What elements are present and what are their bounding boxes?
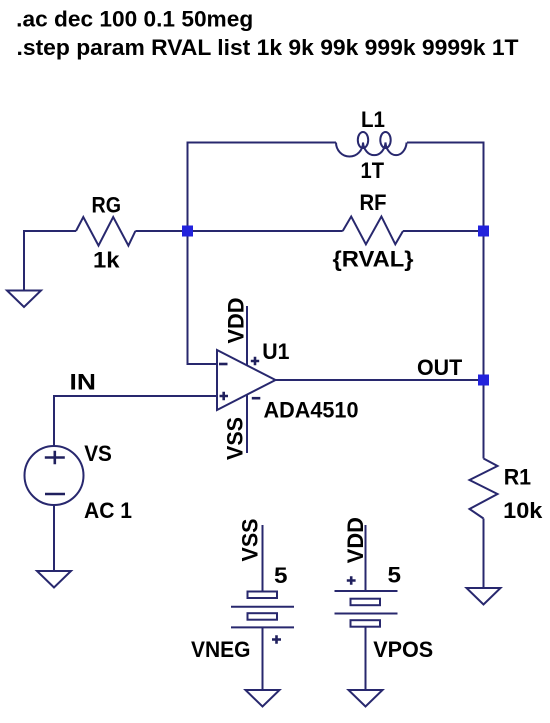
svg-text:VSS: VSS (223, 417, 248, 460)
ground (VS) (37, 571, 71, 588)
wire VS to ground (53, 505, 55, 571)
ground (VPOS) (349, 690, 383, 707)
resistor RG (76, 217, 135, 246)
label L1 (361, 107, 385, 132)
wire node A down to inverting input (188, 231, 218, 364)
svg-text:VS: VS (84, 441, 112, 466)
net label VDD (VPOS) (343, 517, 368, 563)
ground (R1) (467, 588, 501, 605)
battery VNEG (231, 525, 294, 690)
value {RVAL} (333, 247, 414, 272)
resistor R1 (470, 459, 498, 519)
svg-text:VDD: VDD (224, 298, 249, 344)
net label VSS (op-amp) (223, 417, 248, 460)
label RG (92, 192, 122, 217)
pin mark + (VDD) (251, 357, 259, 365)
svg-text:1T: 1T (361, 158, 385, 183)
svg-text:L1: L1 (361, 107, 385, 132)
wire RF to node B (403, 230, 484, 232)
svg-text:VDD: VDD (343, 517, 368, 563)
svg-text:VSS: VSS (238, 519, 263, 562)
wire node B down to OUT (483, 231, 485, 380)
svg-text:VPOS: VPOS (373, 637, 433, 662)
spice directive .ac (16, 7, 253, 32)
junction node A (182, 226, 193, 237)
wire op-amp output to node OUT (276, 379, 484, 381)
inductor L1 (336, 132, 407, 157)
junction node B (478, 226, 489, 237)
wire VDD pin (246, 306, 248, 366)
label U1 (262, 339, 289, 364)
voltage source VS (25, 446, 84, 505)
spice directive .step (17, 35, 520, 60)
svg-text:5: 5 (274, 563, 288, 588)
wire OUT to R1 (483, 380, 485, 459)
label VNEG (191, 637, 251, 662)
svg-text:.step param RVAL list 1k 9k 99: .step param RVAL list 1k 9k 99k 999k 999… (17, 35, 520, 60)
label R1 (504, 465, 531, 490)
svg-text:1k: 1k (93, 248, 120, 273)
label VPOS (373, 637, 433, 662)
svg-text:VNEG: VNEG (191, 637, 251, 662)
wire ground to RG (24, 231, 76, 291)
wire VSS pin (246, 395, 248, 454)
svg-text:OUT: OUT (417, 355, 463, 380)
battery VPOS (335, 525, 398, 690)
svg-text:.ac dec 100 0.1 50meg: .ac dec 100 0.1 50meg (16, 7, 253, 32)
value 5 (VPOS) (388, 563, 402, 588)
value 10k (503, 498, 543, 523)
net label VSS (VNEG) (238, 519, 263, 562)
wire IN to noninverting input (54, 396, 217, 446)
junction node OUT (478, 375, 489, 386)
label ADA4510 (264, 398, 359, 423)
svg-text:{RVAL}: {RVAL} (333, 247, 414, 272)
svg-text:R1: R1 (504, 465, 531, 490)
value 1k (93, 248, 120, 273)
net label VDD (op-amp) (224, 298, 249, 344)
svg-text:5: 5 (388, 563, 402, 588)
svg-text:RF: RF (360, 190, 387, 215)
wire node A to RF (188, 230, 343, 232)
wire top rail right (407, 143, 484, 232)
pin mark - (VSS) (252, 397, 260, 400)
wire node A up to top rail (188, 143, 337, 232)
ground (RG input) (7, 291, 41, 308)
label VS (84, 441, 112, 466)
label OUT (417, 355, 463, 380)
svg-text:U1: U1 (262, 339, 289, 364)
svg-text:RG: RG (92, 192, 122, 217)
svg-text:AC 1: AC 1 (84, 498, 132, 523)
value 1T (361, 158, 385, 183)
op-amp U1 (217, 350, 276, 410)
svg-text:ADA4510: ADA4510 (264, 398, 359, 423)
value 5 (VNEG) (274, 563, 288, 588)
svg-text:10k: 10k (503, 498, 543, 523)
resistor RF (343, 217, 403, 245)
label RF (360, 190, 387, 215)
ground (VNEG) (246, 690, 280, 707)
svg-text:IN: IN (70, 370, 96, 395)
wire RG to node A (135, 230, 187, 232)
label IN (70, 370, 96, 395)
wire R1 to ground (483, 519, 485, 589)
value AC 1 (84, 498, 132, 523)
